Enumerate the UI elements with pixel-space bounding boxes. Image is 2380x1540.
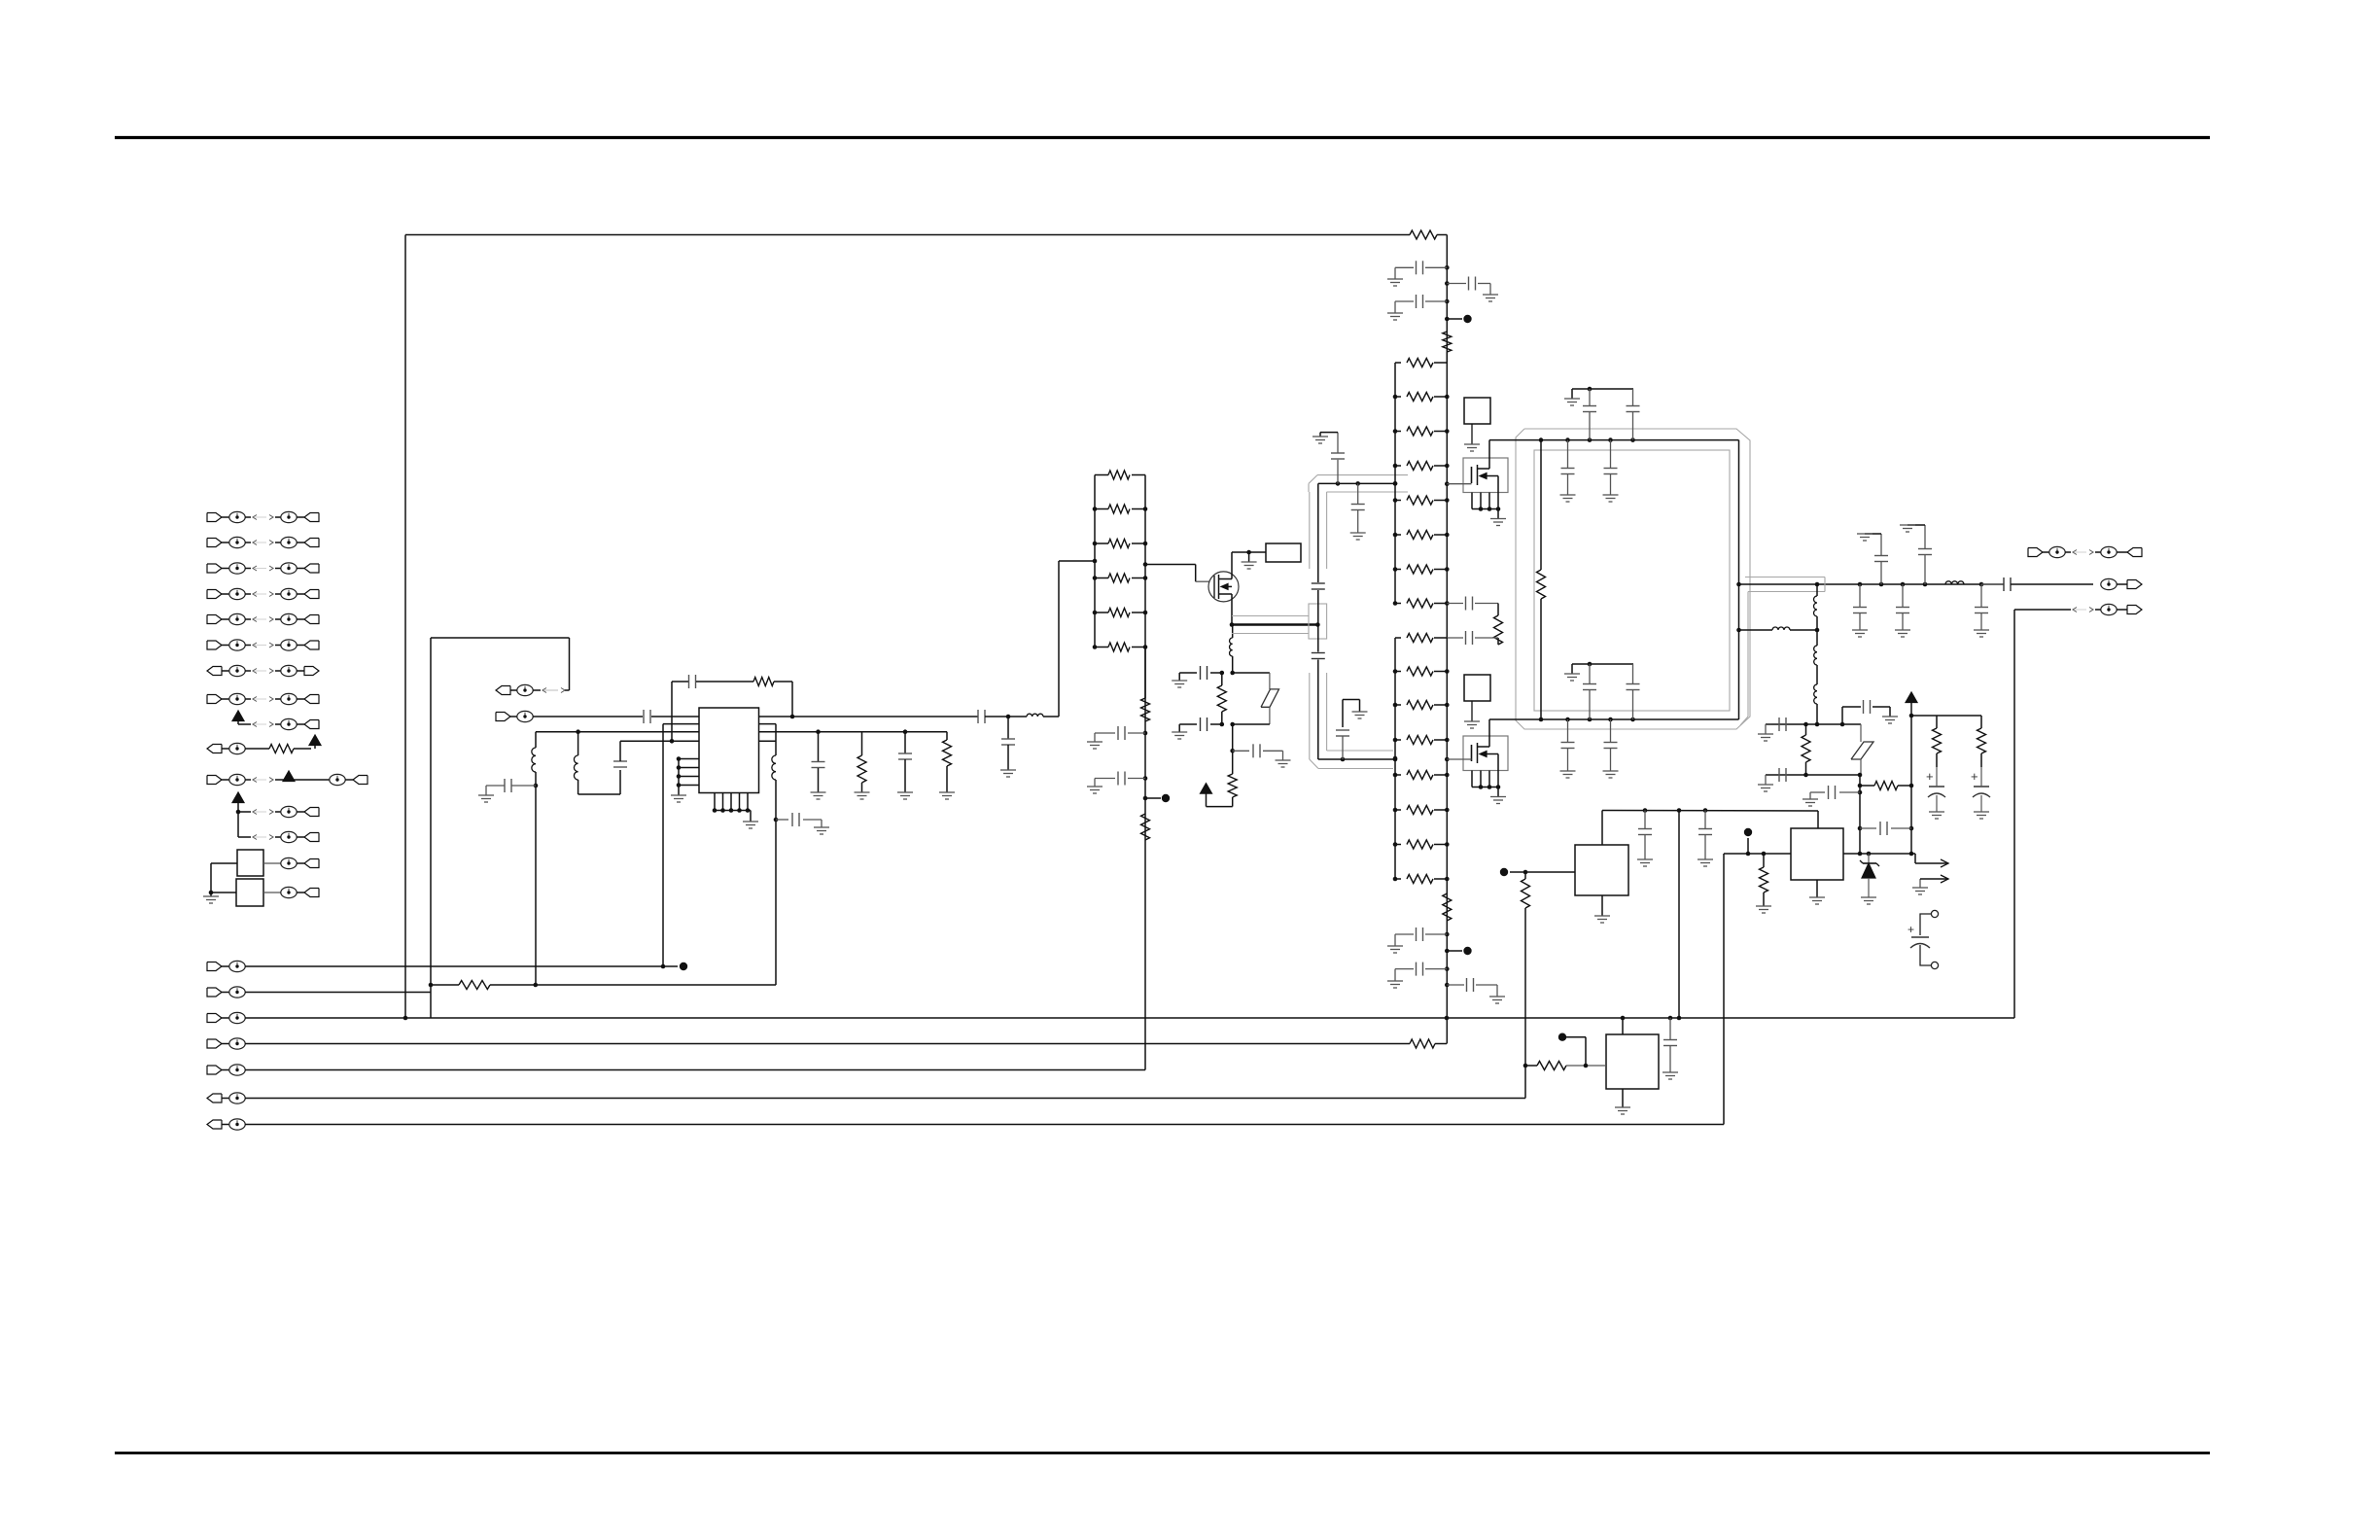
ground C15 [1387, 278, 1403, 280]
wire net line6 [245, 1098, 1525, 1100]
wire rail y833 [1602, 810, 1818, 813]
wire C32 gnd link [1907, 524, 1925, 526]
wire stripline center mid [1317, 590, 1319, 652]
IC U4 regulator [1791, 828, 1843, 880]
trace PA inner outline [1534, 450, 1730, 711]
wire stripline center low [1317, 660, 1319, 760]
ground C8 [1087, 741, 1102, 743]
ground R18 [1756, 905, 1771, 907]
box DC feed module [1266, 543, 1301, 562]
horizontal rule top border [115, 136, 2210, 139]
capacitor C22 [1445, 983, 1450, 988]
capacitor C20 [1445, 932, 1450, 937]
wire U3 gnd [1622, 1089, 1624, 1107]
wire bias wire y781 [1318, 758, 1395, 760]
wire x1966 vertical [1910, 786, 1912, 854]
inductor L9 [1814, 684, 1817, 704]
connector row P1-6 [207, 641, 222, 649]
trace upper stripline pair [1309, 492, 1311, 569]
resistor Rl1-2 [1095, 508, 1108, 510]
wire net line5 [245, 1069, 1145, 1071]
resistor R7 [1410, 230, 1437, 239]
ground C46 [1662, 1071, 1678, 1073]
wire PA top rail [1489, 439, 1739, 441]
capacitor C16 [1445, 281, 1450, 286]
ground C42 [1929, 811, 1944, 813]
connector row P1-15 [263, 892, 281, 893]
connector row P1-9 [253, 722, 257, 727]
resistor R15 [1980, 716, 1982, 728]
ground module [1464, 443, 1480, 445]
capacitor C8 [1143, 731, 1148, 736]
capacitor C46 [1669, 1018, 1671, 1039]
capacitor C10 inline [1312, 582, 1325, 584]
ground C13 [1312, 436, 1328, 437]
capacitor C30 [1610, 719, 1612, 742]
thermistor RT1 [1851, 742, 1873, 759]
ground C17 [1387, 312, 1403, 314]
ground C49 [1172, 731, 1187, 733]
connector row P1-3 [207, 564, 222, 573]
capacitor C35 [1980, 584, 1982, 607]
connector row P2-6 [207, 1094, 222, 1102]
wire to C-in [533, 716, 643, 717]
diode D1 zener [1868, 854, 1870, 863]
node A1 [680, 962, 687, 970]
connector row P1-8 [207, 695, 222, 704]
ground C12 [1352, 711, 1368, 713]
wire node row 797 [1766, 774, 1860, 776]
IC U1 RF amp [699, 708, 759, 793]
varistor RV1 [1233, 672, 1270, 674]
wire U1 gnd stub [750, 811, 752, 822]
connector row P1-7 reversed [207, 667, 222, 676]
ground C38 [1882, 716, 1898, 717]
resistor R3 [946, 732, 948, 740]
connector row P1-13 [238, 836, 251, 838]
ground C14 [1350, 532, 1366, 534]
wire branch up [1841, 707, 1843, 724]
wire C31 gnd link [1865, 533, 1881, 535]
inductor L2 [577, 732, 579, 755]
wire ladder3 left rail [1394, 638, 1396, 879]
wire bias node1 [1230, 671, 1235, 676]
power arrow row9 [232, 711, 244, 721]
capacitor C31 [1880, 562, 1882, 584]
ground C33 [1852, 629, 1868, 631]
ground C32 [1900, 524, 1915, 526]
capacitor C-in series [643, 710, 645, 723]
resistor R11 [1537, 570, 1546, 599]
transistor Q MOSFET cell [1463, 736, 1508, 771]
resistor Rl1-5 [1095, 612, 1108, 613]
connector row J-in A [496, 686, 510, 695]
transistor Q MOSFET cell [1463, 458, 1508, 493]
capacitor C18 [1447, 603, 1463, 605]
capacitor C23 [1567, 440, 1569, 468]
wire U4 out arrow [1911, 853, 1915, 855]
capacitor C48 [1200, 666, 1202, 680]
node U3 in tap [1558, 1033, 1566, 1041]
wire L4 down [775, 780, 777, 985]
box bias module [1464, 398, 1490, 424]
svg-text:+: + [1907, 923, 1914, 936]
capacitor C17 [1445, 299, 1450, 304]
wire x1913 vertical [1859, 775, 1861, 854]
inductor L4 [775, 724, 777, 755]
resistor R8 [1443, 332, 1452, 352]
trace y497 outline [1309, 475, 1317, 484]
resistor R2 [861, 732, 863, 755]
resistor Rl2-8 [1395, 603, 1401, 605]
resistor R17 [1523, 1064, 1528, 1068]
ground C29 [1560, 770, 1576, 772]
wire source bus [1232, 623, 1317, 625]
wire chain to node [1816, 704, 1818, 724]
ground C48 [1172, 680, 1187, 682]
ground aux [1912, 887, 1928, 889]
wire U4 gnd [1816, 880, 1818, 897]
wire C13 gnd link [1320, 432, 1338, 434]
resistor R9 [1494, 615, 1503, 645]
inductor L3 [1008, 716, 1027, 717]
resistor R13 [1858, 784, 1863, 788]
wire chain link [1816, 616, 1818, 646]
resistor R18 [1763, 854, 1765, 867]
wire L1 down [535, 772, 537, 985]
wire PA left vertical [1540, 440, 1542, 570]
resistor Rl2-5 [1395, 500, 1401, 502]
wire U1 pin3 right rail [759, 731, 948, 733]
trace PA outer outline [1516, 429, 1750, 729]
wire ladder2 right rail [1446, 363, 1448, 604]
wire FL1 left [211, 862, 237, 864]
ground C37 [1766, 723, 1771, 725]
transistor Q1 MOSFET [1208, 572, 1239, 602]
resistor R19 [1221, 673, 1223, 685]
power arrow Q1 bias [1207, 806, 1233, 808]
capacitor C-fb [672, 681, 688, 682]
ground source [1490, 796, 1506, 798]
ground C34 [1895, 629, 1910, 631]
wire resistor line y1013 [431, 984, 459, 986]
resistor Rl1-4 [1095, 577, 1108, 579]
trace lower stripline horiz [1327, 750, 1393, 752]
capacitor C21 [1445, 966, 1450, 971]
capacitor C40 [1858, 790, 1863, 795]
power arrow row10 [309, 735, 321, 746]
connector row P1-12 [236, 810, 241, 815]
wire U1 pin3 left [536, 731, 699, 733]
ground U1 left [671, 794, 686, 796]
capacitor C50 [1233, 750, 1249, 752]
ground R3 [939, 791, 955, 793]
box bias module [1464, 675, 1490, 701]
capacitor C2 [613, 760, 627, 762]
IC pin U1 left lower pins [679, 758, 699, 760]
capacitor C6 [816, 729, 821, 734]
ground C6 [811, 791, 826, 793]
resistor R-fb [753, 678, 774, 686]
wire source gnd [1497, 509, 1499, 519]
wire sense vertical x2072 [2013, 610, 2015, 1018]
capacitor C9 [1143, 776, 1148, 781]
wire net RX line1 [245, 965, 663, 967]
wire U4 in rail [1724, 853, 1791, 855]
resistor R4 [459, 981, 490, 990]
connector pin ANT out [2101, 578, 2117, 589]
capacitor C41 [1858, 826, 1863, 831]
wire net line4 [245, 1043, 1410, 1045]
ground C7 [897, 791, 913, 793]
connector row P1-5 [207, 615, 222, 624]
wire source pins [1471, 493, 1473, 509]
inductor L6 [1816, 584, 1818, 596]
horizontal rule bottom border [115, 1452, 2210, 1454]
capacitor C15 [1445, 265, 1450, 270]
wire U3 top pin [1622, 1018, 1624, 1034]
wire out2 line [1736, 628, 1741, 633]
ground C44 [1637, 858, 1653, 860]
resistor Rl2-6 [1395, 534, 1401, 536]
capacitor C38 [1863, 700, 1865, 714]
wire U1 pin4 left [619, 741, 621, 761]
wire FL2 left [211, 892, 236, 893]
wire RT1 leads [1860, 724, 1862, 742]
ground C45 [1697, 858, 1713, 860]
resistor Rl3-3 [1395, 704, 1401, 706]
wire left frame vertical x417 [404, 235, 406, 1019]
capacitor C12 [1342, 736, 1344, 759]
capacitor C25 [1589, 389, 1591, 405]
capacitor C13 [1337, 460, 1339, 484]
inductor L5 [1945, 581, 1964, 584]
resistor Rl3-2 [1395, 671, 1401, 673]
ground C31 [1857, 533, 1872, 535]
ground bottom feed [1571, 664, 1573, 674]
resistor Rl3-8 [1395, 878, 1401, 880]
ground C50 [1276, 759, 1291, 761]
node U2 in tap [1510, 871, 1525, 873]
connector row P2-1 [207, 962, 222, 971]
wire bias node3 [1232, 724, 1234, 774]
wire source pins [1471, 771, 1473, 787]
wire ladder3 right rail [1446, 638, 1448, 1044]
resistor R10 [1443, 893, 1452, 921]
ground U1 bottom [743, 821, 758, 822]
capacitor C33 [1859, 584, 1861, 607]
power arrow row12 [232, 792, 244, 803]
wire U2 in [1525, 871, 1575, 873]
ground module [1464, 720, 1480, 722]
battery BT1 terminals [1931, 910, 1938, 917]
capacitor C37 [1778, 717, 1780, 731]
wire source gnd [1497, 787, 1499, 797]
node ladder tap [1143, 796, 1148, 801]
resistor R-line4 [1410, 1039, 1435, 1048]
ground C20 [1387, 945, 1403, 947]
power arrow row11 [283, 771, 295, 782]
resistor R5 [1144, 647, 1146, 699]
wire RF out line [1736, 582, 1741, 587]
ground top feed [1571, 389, 1573, 399]
ground C5 [814, 826, 829, 828]
capacitor C4 shunt [1007, 717, 1009, 739]
connector row P2-5 [207, 1066, 222, 1074]
ground C4 [1000, 769, 1016, 771]
wire gate lead [1447, 758, 1471, 760]
capacitor C32 [1924, 555, 1926, 584]
wire PA left vertical lower [1540, 599, 1542, 719]
connector row P1-10 [207, 745, 222, 753]
power arrow bias [1906, 692, 1917, 703]
svg-text:+: + [1971, 769, 1978, 784]
node U4 in tap [1747, 838, 1749, 854]
capacitor C5 [774, 818, 779, 822]
capacitor C44 [1644, 811, 1646, 829]
ground D1 [1861, 896, 1876, 898]
wire module gnd stub [1471, 424, 1473, 444]
IC pin U1 bottom pins [714, 793, 716, 811]
resistor Rl1-6 [1095, 647, 1108, 648]
ground U4 [1809, 896, 1825, 898]
capacitor C27 [1589, 664, 1591, 683]
ground R2 [855, 791, 870, 793]
wire x1773 vertical [1723, 854, 1725, 1125]
resistor Rl1-3 [1095, 542, 1108, 544]
connector row aux out 627 [2014, 609, 2071, 611]
connector row aux out 568 [2028, 548, 2043, 557]
wire gate feed [1143, 562, 1148, 567]
wire gate lead [1447, 483, 1471, 485]
wire stripline center top [1317, 483, 1319, 582]
ground drain [1248, 552, 1250, 562]
wire vbatt rail [1909, 714, 1914, 718]
wire net line3 long [245, 1017, 2014, 1019]
wire ladder2 left rail [1394, 363, 1396, 604]
resistor R6 [1141, 814, 1150, 840]
wire Q1 source [1231, 594, 1233, 625]
wire rail links mid [1446, 604, 1448, 639]
wire left frame top [431, 637, 570, 639]
wire vertical x682 [662, 724, 664, 966]
wire ladder1 right rail [1144, 475, 1146, 1070]
resistor Rl2-4 [1395, 465, 1401, 467]
ground C24 [1603, 494, 1619, 496]
resistor Rl3-1 [1395, 637, 1401, 639]
wire node row 745 [1766, 723, 1861, 725]
wire net line2 [245, 992, 431, 994]
wire chain rail down [1446, 235, 1448, 364]
capacitor C11 inline [1312, 652, 1325, 654]
ground left stack [210, 892, 212, 896]
filter box FL2 [236, 879, 263, 906]
capacitor C19 [1497, 638, 1499, 645]
wire drain rail [1232, 551, 1266, 553]
inductor L7 [1772, 627, 1790, 630]
inductor L1 [535, 732, 537, 748]
wire U4 top pin [1817, 811, 1819, 828]
filter box FL1 [237, 850, 263, 876]
signal arrow out1 [1915, 862, 1948, 864]
wire Q1 drain [1231, 552, 1233, 579]
ground C16 [1483, 294, 1498, 296]
wire U2 gnd [1601, 895, 1603, 916]
trace bus tee outline [1309, 604, 1327, 639]
IC U3 [1606, 1034, 1659, 1089]
node chain tap [1445, 317, 1450, 322]
wire U1 pin1 right [759, 716, 979, 717]
wire module gnd stub [1471, 701, 1473, 721]
inductor L8 [1814, 646, 1817, 665]
resistor R-row10 [269, 745, 294, 753]
resistor Rl3-6 [1395, 809, 1401, 811]
wire PA bottom rail [1489, 718, 1739, 720]
resistor R20 [1228, 774, 1237, 797]
ground C21 [1387, 980, 1403, 982]
resistor Rl3-5 [1395, 774, 1401, 776]
ground C43 [1974, 811, 1989, 813]
ground C23 [1560, 494, 1576, 496]
wire L2 to C2 [577, 780, 579, 794]
ground C35 [1974, 629, 1989, 631]
wire U1 pin4 right [759, 740, 777, 742]
wire pins to gnd [678, 759, 680, 796]
ground C40 [1802, 798, 1818, 800]
wire net y497 [1318, 482, 1395, 484]
resistor R14 [1936, 716, 1938, 728]
wire U4 out [1843, 853, 1911, 855]
wire x1727 link [1678, 811, 1680, 1019]
ground source [1490, 518, 1506, 520]
svg-text:+: + [1926, 769, 1934, 784]
wire drain to rail [1488, 440, 1490, 458]
wire L3 to ladder [1043, 716, 1059, 717]
resistor Rl1-1 [1095, 474, 1108, 476]
resistor Rl3-4 [1395, 739, 1401, 741]
capacitor C49 [1200, 717, 1202, 731]
ground C-L1 [478, 794, 494, 796]
connector row P2-2 [207, 988, 222, 997]
wire bottom cap feed [1572, 663, 1633, 665]
capacitor C29 [1567, 719, 1569, 742]
connector row P1-4 [207, 590, 222, 599]
ground U3 [1615, 1106, 1630, 1108]
wire C12 gnd link [1342, 700, 1344, 728]
ground C39 [1765, 775, 1767, 785]
connector row P1-14 [263, 862, 281, 864]
trace out line outline [1745, 577, 1825, 578]
node chain tap2 [1445, 949, 1450, 954]
IC U2 [1575, 845, 1628, 895]
connector row P2-4 [207, 1039, 222, 1048]
wire drain to rail [1488, 719, 1490, 736]
resistor Rl3-7 [1395, 844, 1401, 846]
connector row P2-3 [207, 1014, 222, 1023]
capacitor C45 [1704, 811, 1706, 829]
resistor Rl2-3 [1395, 431, 1401, 433]
capacitor C28 [1632, 664, 1634, 683]
connector row P1-2 [207, 539, 222, 547]
connector row J-in B [496, 713, 510, 721]
capacitor C3 series [977, 710, 979, 723]
capacitor C26 [1632, 389, 1634, 405]
wire net line7 [245, 1124, 1724, 1126]
ground C22 [1489, 996, 1505, 997]
capacitor C39 [1778, 768, 1780, 782]
connector row P1-1 [207, 513, 222, 522]
resistor R12 [1805, 724, 1807, 735]
